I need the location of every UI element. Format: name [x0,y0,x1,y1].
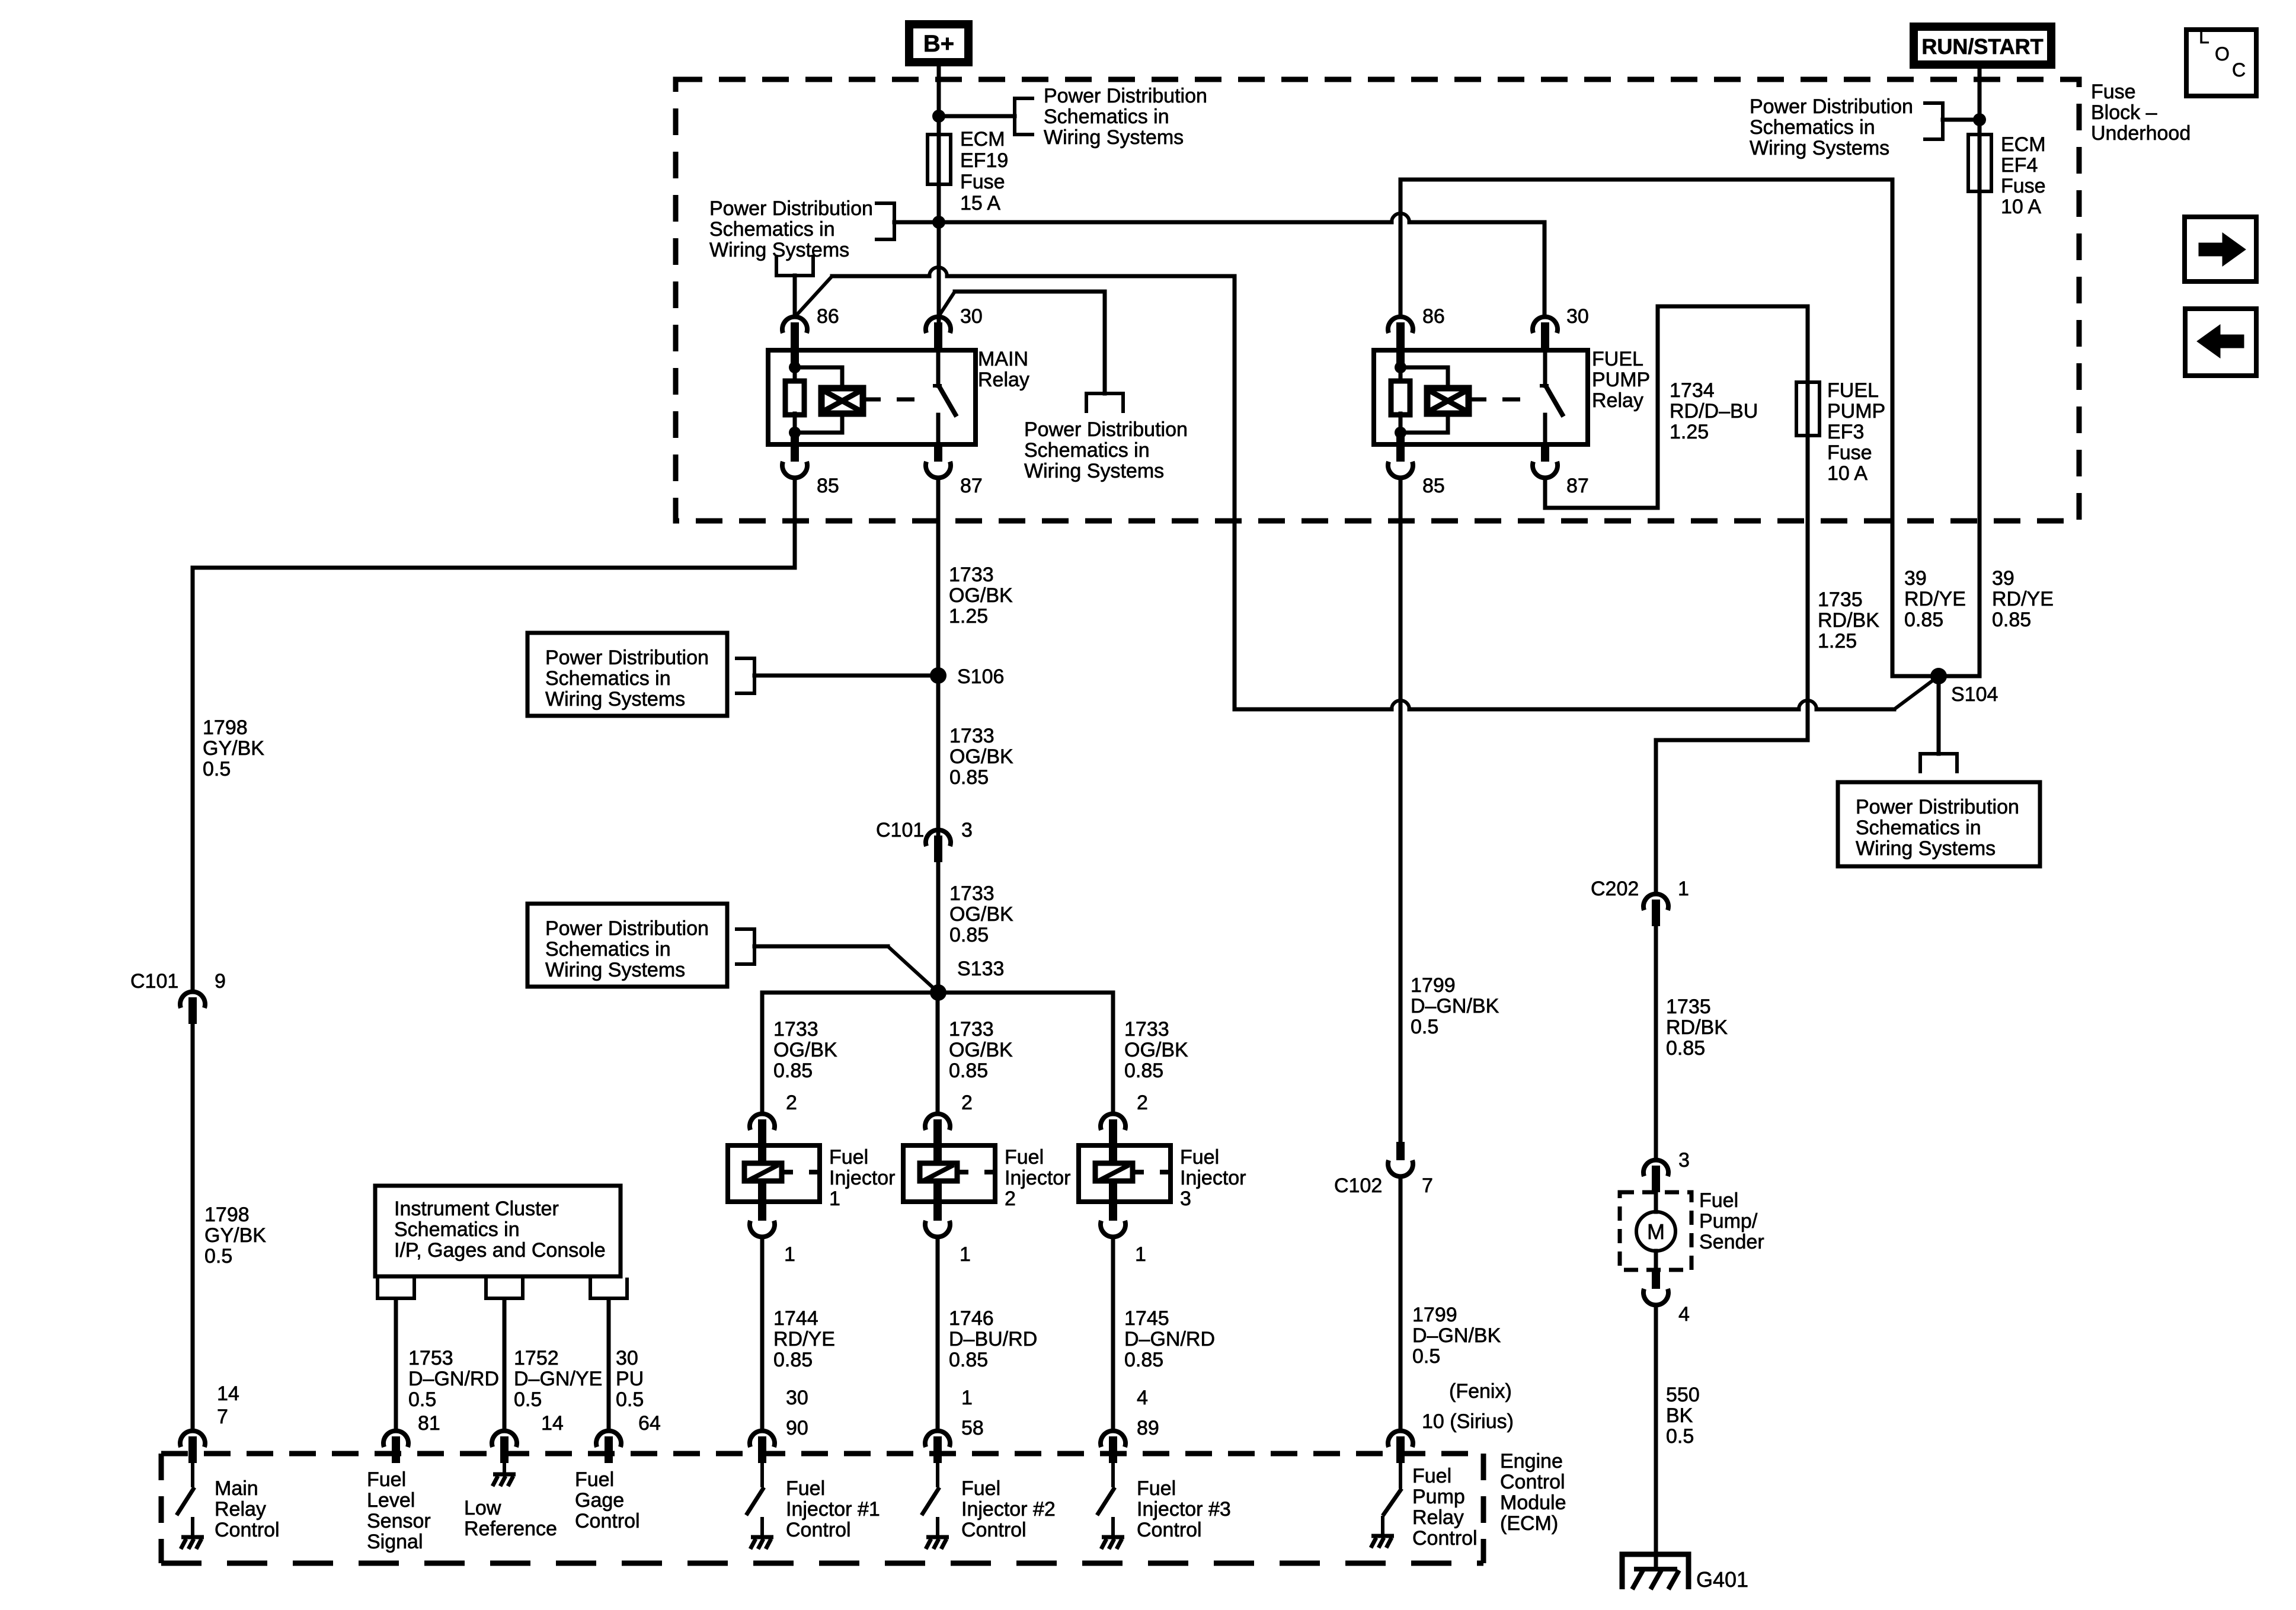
svg-text:Power Distribution: Power Distribution [545,917,709,940]
svg-text:1735: 1735 [1818,588,1863,611]
svg-text:39: 39 [1904,567,1927,590]
svg-text:3: 3 [1180,1188,1191,1210]
svg-text:PUMP: PUMP [1592,369,1650,391]
svg-text:58: 58 [961,1417,984,1439]
svg-text:1734: 1734 [1670,379,1715,402]
svg-text:Fuel: Fuel [1005,1146,1044,1169]
svg-text:Control: Control [575,1510,640,1532]
svg-text:1: 1 [784,1243,795,1266]
svg-text:15 A: 15 A [960,192,1000,215]
svg-text:Fuel: Fuel [1699,1189,1738,1212]
svg-text:PU: PU [616,1368,644,1390]
svg-text:81: 81 [418,1412,440,1435]
svg-text:M: M [1647,1219,1665,1244]
svg-text:RD/YE: RD/YE [1992,588,2054,610]
svg-text:0.85: 0.85 [949,766,989,789]
svg-text:1: 1 [961,1387,973,1409]
svg-text:C: C [2232,59,2246,81]
svg-text:Engine: Engine [1500,1450,1563,1473]
svg-text:Signal: Signal [367,1531,423,1553]
svg-text:Fuse: Fuse [2001,175,2046,197]
svg-text:S133: S133 [957,958,1004,980]
svg-text:B+: B+ [923,31,954,57]
svg-text:1798: 1798 [204,1204,250,1226]
svg-text:Power Distribution: Power Distribution [545,646,709,669]
svg-text:Relay: Relay [215,1498,266,1521]
svg-text:30: 30 [960,305,983,328]
svg-text:4: 4 [1137,1387,1148,1409]
svg-text:OG/BK: OG/BK [949,1039,1013,1061]
svg-text:10 (Sirius): 10 (Sirius) [1422,1410,1514,1433]
svg-text:89: 89 [1137,1417,1159,1439]
svg-text:86: 86 [1422,305,1445,328]
svg-text:0.85: 0.85 [1904,609,1943,631]
svg-text:Sender: Sender [1699,1231,1764,1253]
svg-text:1799: 1799 [1412,1304,1457,1326]
svg-text:Low: Low [464,1497,501,1519]
svg-text:Wiring Systems: Wiring Systems [1856,837,1996,860]
svg-text:30: 30 [616,1347,638,1369]
svg-text:Block –: Block – [2091,101,2157,124]
svg-text:87: 87 [1566,475,1589,497]
svg-text:Power Distribution: Power Distribution [1856,796,2019,818]
svg-text:0.85: 0.85 [773,1060,813,1082]
svg-text:Schematics in: Schematics in [709,218,835,241]
svg-text:S106: S106 [957,665,1004,688]
svg-text:0.5: 0.5 [203,758,231,780]
svg-text:1733: 1733 [949,1018,994,1041]
svg-text:30: 30 [786,1387,808,1409]
svg-text:Relay: Relay [1592,389,1643,412]
svg-text:9: 9 [215,970,226,993]
svg-text:Schematics in: Schematics in [1750,116,1875,139]
svg-text:1798: 1798 [203,716,248,739]
svg-text:OG/BK: OG/BK [1124,1039,1188,1061]
svg-text:Control: Control [961,1519,1027,1541]
svg-text:1799: 1799 [1411,974,1456,997]
svg-text:1745: 1745 [1124,1307,1169,1330]
svg-text:Wiring Systems: Wiring Systems [709,239,849,261]
svg-text:Control: Control [1500,1471,1565,1493]
svg-text:0.85: 0.85 [949,1349,988,1371]
svg-text:0.5: 0.5 [408,1388,436,1411]
svg-text:RD/D–BU: RD/D–BU [1670,400,1758,422]
svg-text:0.85: 0.85 [1666,1037,1705,1060]
svg-text:Module: Module [1500,1491,1566,1514]
svg-text:10 A: 10 A [2001,196,2041,218]
svg-text:Power Distribution: Power Distribution [1044,85,1207,107]
svg-text:0.5: 0.5 [204,1245,232,1267]
svg-text:1752: 1752 [514,1347,559,1369]
svg-text:D–GN/RD: D–GN/RD [408,1368,499,1390]
svg-text:0.85: 0.85 [949,924,989,946]
svg-text:1: 1 [960,1243,971,1266]
svg-text:C202: C202 [1591,878,1639,900]
svg-text:1753: 1753 [408,1347,453,1369]
svg-text:1.25: 1.25 [1818,630,1857,652]
svg-text:Instrument Cluster: Instrument Cluster [394,1198,559,1220]
svg-text:1: 1 [1678,878,1689,900]
svg-text:C102: C102 [1334,1174,1382,1197]
svg-text:BK: BK [1666,1404,1693,1427]
svg-text:Relay: Relay [1412,1506,1464,1529]
svg-text:S104: S104 [1951,683,1998,706]
svg-text:(ECM): (ECM) [1500,1512,1558,1535]
svg-text:0.5: 0.5 [514,1388,542,1411]
svg-text:550: 550 [1666,1384,1700,1406]
svg-text:RUN/START: RUN/START [1921,34,2043,59]
svg-text:Control: Control [1412,1527,1478,1550]
svg-text:7: 7 [1422,1174,1433,1197]
svg-text:1: 1 [1135,1243,1146,1266]
svg-text:Fuse: Fuse [960,171,1005,193]
svg-text:D–GN/YE: D–GN/YE [514,1368,602,1390]
svg-text:90: 90 [786,1417,808,1439]
svg-text:Schematics in: Schematics in [1044,105,1169,128]
svg-text:Gage: Gage [575,1489,624,1512]
svg-text:EF3: EF3 [1827,421,1864,443]
svg-text:Underhood: Underhood [2091,122,2191,145]
svg-text:FUEL: FUEL [1827,379,1879,402]
svg-text:Pump: Pump [1412,1486,1465,1508]
svg-text:ECM: ECM [2001,133,2046,156]
svg-text:1733: 1733 [949,564,994,586]
svg-text:85: 85 [1422,475,1445,497]
svg-text:Fuel: Fuel [367,1468,406,1491]
svg-text:D–GN/BK: D–GN/BK [1411,995,1499,1017]
svg-text:1: 1 [829,1188,840,1210]
svg-text:Wiring Systems: Wiring Systems [1750,137,1889,159]
svg-text:Schematics in: Schematics in [545,667,671,690]
svg-text:0.5: 0.5 [1666,1425,1694,1448]
svg-text:Fuel: Fuel [961,1477,1000,1500]
svg-text:0.5: 0.5 [1412,1345,1440,1368]
svg-text:1744: 1744 [773,1307,818,1330]
svg-text:1733: 1733 [949,725,994,747]
svg-text:Schematics in: Schematics in [545,938,671,961]
svg-text:Fuel: Fuel [575,1468,614,1491]
svg-text:Wiring Systems: Wiring Systems [545,959,685,981]
svg-text:Level: Level [367,1489,415,1512]
svg-text:2: 2 [786,1092,797,1114]
svg-text:64: 64 [638,1412,661,1435]
svg-text:RD/YE: RD/YE [773,1328,835,1350]
svg-text:OG/BK: OG/BK [949,584,1013,607]
svg-text:RD/BK: RD/BK [1666,1016,1728,1039]
svg-text:OG/BK: OG/BK [773,1039,837,1061]
svg-text:Main: Main [215,1477,258,1500]
svg-text:Fuel: Fuel [786,1477,825,1500]
svg-text:3: 3 [1678,1149,1690,1172]
svg-text:Pump/: Pump/ [1699,1210,1758,1233]
svg-text:1.25: 1.25 [1670,421,1709,443]
svg-text:0.85: 0.85 [949,1060,988,1082]
svg-text:2: 2 [1137,1092,1148,1114]
svg-text:Fuel: Fuel [829,1146,868,1169]
svg-text:14: 14 [217,1382,239,1405]
svg-text:87: 87 [960,475,983,497]
svg-text:Injector #3: Injector #3 [1137,1498,1231,1521]
svg-text:Power Distribution: Power Distribution [709,197,873,220]
svg-text:Injector: Injector [829,1167,896,1189]
svg-text:FUEL: FUEL [1592,348,1643,370]
svg-text:85: 85 [817,475,839,497]
svg-text:1746: 1746 [949,1307,994,1330]
svg-text:D–GN/RD: D–GN/RD [1124,1328,1215,1350]
svg-text:1733: 1733 [1124,1018,1169,1041]
svg-text:14: 14 [541,1412,564,1435]
svg-text:(Fenix): (Fenix) [1449,1380,1512,1403]
svg-text:OG/BK: OG/BK [949,903,1013,926]
svg-text:0.85: 0.85 [773,1349,813,1371]
svg-text:Power Distribution: Power Distribution [1750,95,1913,118]
svg-text:1733: 1733 [949,882,994,905]
svg-text:7: 7 [217,1406,228,1428]
svg-text:ECM: ECM [960,128,1005,151]
svg-text:GY/BK: GY/BK [204,1224,266,1247]
svg-text:86: 86 [817,305,839,328]
svg-text:Injector #2: Injector #2 [961,1498,1056,1521]
svg-text:Fuel: Fuel [1137,1477,1176,1500]
svg-text:2: 2 [1005,1188,1016,1210]
svg-text:Injector #1: Injector #1 [786,1498,880,1521]
svg-text:1733: 1733 [773,1018,818,1041]
svg-text:Fuel: Fuel [1412,1465,1451,1487]
svg-text:EF19: EF19 [960,149,1008,172]
svg-text:RD/YE: RD/YE [1904,588,1966,610]
svg-text:RD/BK: RD/BK [1818,609,1879,632]
svg-text:Relay: Relay [978,369,1029,391]
svg-text:EF4: EF4 [2001,154,2038,177]
svg-text:PUMP: PUMP [1827,400,1885,422]
svg-text:GY/BK: GY/BK [203,737,264,760]
svg-text:Wiring Systems: Wiring Systems [545,688,685,710]
svg-text:0.5: 0.5 [1411,1016,1438,1038]
svg-text:D–BU/RD: D–BU/RD [949,1328,1037,1350]
svg-text:Control: Control [215,1519,280,1541]
svg-text:D–GN/BK: D–GN/BK [1412,1324,1501,1347]
svg-text:Wiring Systems: Wiring Systems [1024,460,1164,482]
svg-text:Fuse: Fuse [2091,81,2136,103]
svg-text:Schematics in: Schematics in [1856,817,1981,839]
svg-text:Fuel: Fuel [1180,1146,1219,1169]
svg-text:0.85: 0.85 [1124,1060,1163,1082]
svg-text:Power Distribution: Power Distribution [1024,418,1188,441]
svg-text:0.85: 0.85 [1124,1349,1163,1371]
svg-text:MAIN: MAIN [978,348,1028,370]
svg-text:1735: 1735 [1666,996,1711,1018]
svg-text:0.85: 0.85 [1992,609,2031,631]
svg-text:Control: Control [1137,1519,1202,1541]
svg-text:Fuse: Fuse [1827,441,1872,464]
svg-text:10 A: 10 A [1827,462,1868,485]
svg-text:C101: C101 [876,819,924,841]
svg-text:Control: Control [786,1519,851,1541]
svg-text:Sensor: Sensor [367,1510,431,1532]
svg-text:Reference: Reference [464,1518,557,1540]
svg-text:Schematics in: Schematics in [1024,439,1150,462]
svg-text:30: 30 [1566,305,1589,328]
svg-text:2: 2 [961,1092,973,1114]
svg-text:C101: C101 [130,970,178,993]
svg-text:I/P, Gages and Console: I/P, Gages and Console [394,1239,606,1262]
svg-text:1.25: 1.25 [949,605,988,628]
svg-text:Injector: Injector [1005,1167,1071,1189]
svg-text:0.5: 0.5 [616,1388,644,1411]
svg-text:L: L [2199,26,2209,47]
svg-text:4: 4 [1678,1303,1690,1326]
svg-text:G401: G401 [1696,1567,1748,1592]
svg-text:Schematics in: Schematics in [394,1218,520,1241]
svg-text:3: 3 [961,819,973,841]
svg-text:O: O [2215,43,2230,65]
svg-text:Wiring Systems: Wiring Systems [1044,126,1184,149]
svg-text:OG/BK: OG/BK [949,745,1013,768]
svg-text:39: 39 [1992,567,2014,590]
svg-text:Injector: Injector [1180,1167,1246,1189]
